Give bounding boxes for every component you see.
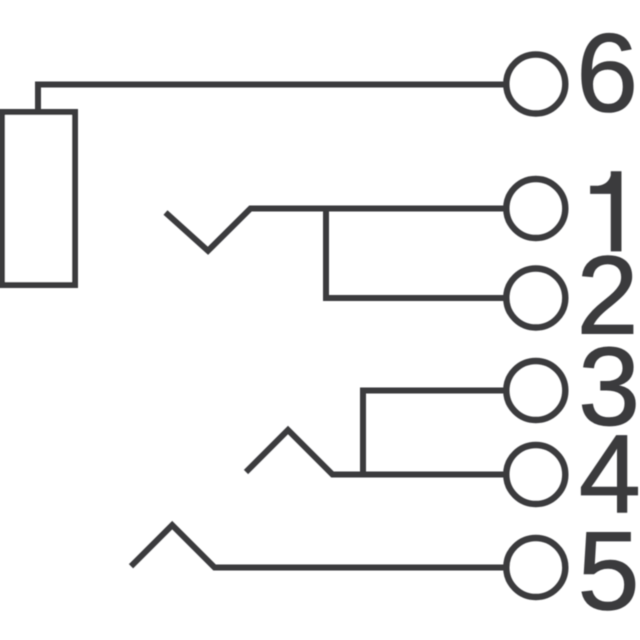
switch contact chevron + wire to terminal 1 [166, 209, 508, 251]
terminal number label 1 [591, 172, 621, 251]
jack sleeve contact (rectangle) [2, 112, 75, 285]
junction wire from node 1 down + wire to terminal 2 [326, 209, 507, 298]
terminal number label 6 [582, 33, 633, 112]
wire from sleeve to terminal 6 [38, 85, 507, 112]
terminal circle 1 [506, 179, 565, 238]
terminal number label 5 [582, 533, 635, 611]
junction wire from node 4 up + wire to terminal 3 [363, 391, 507, 475]
terminal number label 2 [582, 256, 633, 334]
terminal circle 6 [506, 55, 565, 114]
switch contact chevron + wire to terminal 5 [131, 525, 507, 567]
terminal number label 4 [581, 436, 637, 513]
terminal circle 2 [506, 269, 565, 328]
terminal circle 3 [506, 361, 565, 420]
switch contact chevron + wire to terminal 4 [246, 430, 507, 475]
terminal circle 5 [506, 538, 565, 597]
terminal circle 4 [506, 445, 565, 504]
terminal number label 3 [582, 347, 635, 426]
